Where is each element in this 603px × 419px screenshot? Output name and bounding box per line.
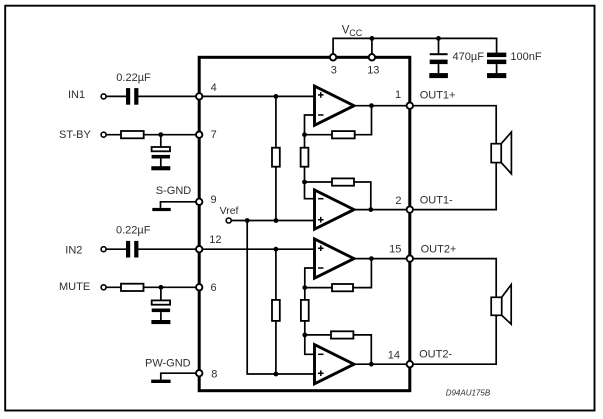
svg-text:2: 2	[395, 195, 401, 207]
svg-text:7: 7	[211, 129, 217, 141]
svg-text:D94AU175B: D94AU175B	[446, 389, 491, 398]
svg-text:Vref: Vref	[220, 205, 239, 217]
svg-text:MUTE: MUTE	[59, 281, 90, 293]
svg-text:12: 12	[209, 234, 221, 246]
svg-text:9: 9	[211, 194, 217, 206]
svg-text:OUT2-: OUT2-	[419, 348, 452, 360]
svg-text:3: 3	[331, 65, 337, 77]
svg-text:0.22µF: 0.22µF	[116, 225, 151, 237]
svg-text:IN1: IN1	[68, 89, 85, 101]
svg-text:6: 6	[211, 282, 217, 294]
svg-text:CC: CC	[349, 28, 362, 38]
svg-text:OUT1-: OUT1-	[420, 195, 453, 207]
svg-text:OUT1+: OUT1+	[420, 90, 456, 102]
svg-text:100nF: 100nF	[510, 51, 541, 63]
svg-text:470µF: 470µF	[453, 51, 485, 63]
svg-text:15: 15	[389, 243, 401, 255]
svg-text:1: 1	[395, 89, 401, 101]
svg-text:PW-GND: PW-GND	[145, 358, 191, 370]
svg-text:ST-BY: ST-BY	[59, 129, 91, 141]
svg-text:4: 4	[211, 82, 217, 94]
svg-text:8: 8	[211, 368, 217, 380]
svg-text:IN2: IN2	[65, 245, 82, 257]
svg-text:14: 14	[388, 349, 400, 361]
svg-text:S-GND: S-GND	[156, 185, 192, 197]
svg-text:13: 13	[367, 65, 379, 77]
svg-text:0.22µF: 0.22µF	[116, 72, 151, 84]
svg-text:OUT2+: OUT2+	[421, 243, 457, 255]
